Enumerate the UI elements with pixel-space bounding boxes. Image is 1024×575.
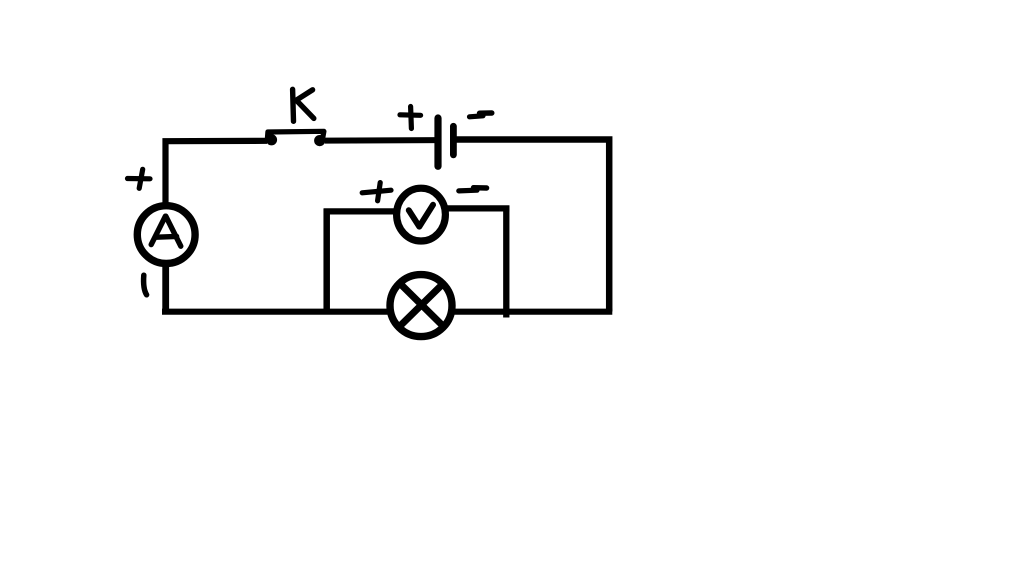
lamp L1 circle (390, 275, 452, 337)
wire: voltmeter branch right vertical (503, 206, 509, 318)
voltmeter V1 circle (397, 188, 446, 241)
label + (battery) (400, 107, 421, 129)
wire: switch to battery positive plate (325, 137, 437, 144)
wire: top-left segment with left corner down to ammeter (166, 141, 268, 206)
battery B1 positive plate (tall) (434, 118, 441, 166)
switch K contact dot right (314, 135, 325, 146)
battery B1 negative plate (short) (450, 126, 457, 155)
wire: battery to top-right corner and right vertical down (455, 140, 609, 312)
label minus (ammeter) (144, 275, 147, 295)
lamp L1 cross diagonal 2 (399, 282, 445, 327)
wire: voltmeter branch left vertical (323, 209, 330, 315)
ammeter A1 circle (137, 206, 195, 264)
label + (voltmeter) (362, 183, 391, 201)
label V (voltmeter letter) (409, 205, 433, 227)
switch K contact dot left (266, 134, 277, 145)
wire: voltmeter branch top-left horizontal (324, 208, 397, 214)
label K (293, 89, 314, 121)
label minus (battery) (470, 113, 492, 117)
label minus (voltmeter) (459, 188, 487, 191)
wire: voltmeter branch top-right horizontal (446, 205, 509, 211)
switch K bridge bar (267, 131, 324, 138)
lamp L1 cross diagonal 1 (399, 283, 445, 328)
wire: bottom horizontal (162, 309, 612, 315)
label + (ammeter) (128, 169, 151, 188)
label A (ammeter letter) (151, 216, 181, 246)
wire: ammeter bottom lead to bottom-left corner (162, 262, 169, 312)
